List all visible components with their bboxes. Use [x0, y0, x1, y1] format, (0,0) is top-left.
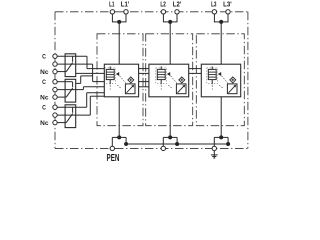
svg-text:Nc: Nc — [40, 95, 49, 102]
svg-text:L1: L1 — [109, 2, 114, 9]
left edge — [54, 12, 56, 149]
svg-text:C: C — [42, 105, 46, 112]
wire C contact sw1 — [57, 55, 87, 57]
wire bus c1 to module 1 — [87, 92, 105, 94]
svg-text:L1': L1' — [121, 2, 130, 9]
svg-text:L3': L3' — [223, 2, 232, 9]
wire bus a1 to module 1 — [87, 68, 104, 70]
inner boundary module 1 — [97, 34, 143, 126]
wire C contact sw3 — [57, 106, 87, 108]
wire mid contact sw2 — [57, 89, 83, 91]
svg-text:Nc: Nc — [40, 69, 49, 76]
wire bus c2 to module 1 — [90, 95, 104, 97]
svg-text:C: C — [42, 54, 46, 61]
wire bus a between module2 and module3 — [189, 68, 202, 70]
module 2 solid box — [149, 64, 189, 97]
wire sw1 C riser down — [86, 56, 88, 68]
top edge — [55, 11, 248, 13]
wire mid contact sw3 — [57, 114, 90, 116]
wire mid contact sw1 — [57, 63, 93, 65]
module 1 solid box — [104, 64, 138, 97]
svg-text:C: C — [42, 79, 46, 86]
module 3 solid box — [201, 64, 240, 97]
bottom edge — [55, 147, 248, 149]
wire bus b1 to module 1 — [93, 81, 105, 83]
right edge — [247, 12, 249, 149]
wire sw1 mid riser down — [92, 64, 94, 82]
svg-text:PEN: PEN — [107, 153, 120, 164]
wire bus b between module1 and module2 — [139, 81, 149, 83]
wire Nc contact sw1 — [57, 71, 66, 73]
wire sw3 C riser up — [86, 93, 88, 107]
svg-text:L2': L2' — [173, 2, 182, 9]
svg-text:L3: L3 — [211, 2, 216, 9]
wire sw2 C exit jog — [76, 82, 81, 84]
wire C contact sw2 — [57, 81, 72, 83]
wire sw1 Nc exit to module 1 — [76, 72, 105, 74]
wire Nc contact sw2 — [57, 96, 66, 98]
svg-text:Nc: Nc — [40, 120, 49, 127]
svg-text:L2: L2 — [160, 2, 165, 9]
wire bus b2 to module 1 — [83, 86, 104, 88]
wire bus a between module1 and module2 — [139, 68, 149, 70]
wire sw3 mid riser up — [89, 96, 91, 115]
inner boundary module 2 — [146, 34, 193, 126]
inner boundary module 3 — [196, 34, 244, 126]
wire Nc contact sw3 — [57, 122, 66, 124]
wire sw2 mid riser up — [82, 87, 84, 90]
